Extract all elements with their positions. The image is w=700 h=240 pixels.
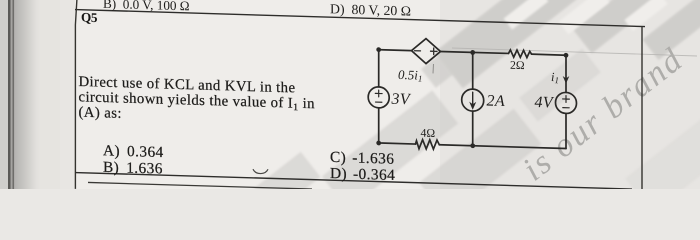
handwritten squiggle <box>253 169 268 174</box>
bottom wire right section <box>439 145 566 149</box>
watermark: diagonal gray bands (big letters of stamp) <box>0 0 1 1</box>
3V minus sign <box>376 101 382 103</box>
table: top border line <box>75 10 645 27</box>
current source 2A circle <box>462 89 484 112</box>
stray pen tick <box>432 64 435 74</box>
voltage source 4V circle <box>556 92 577 114</box>
node top-middle junction dot <box>470 50 475 55</box>
table: right border <box>641 26 643 197</box>
middle branch: wire from top node down to 2A <box>472 52 474 89</box>
table: bottom border <box>75 173 632 190</box>
second lower line <box>88 182 312 189</box>
svg-text:(A) as:: (A) as: <box>79 105 122 122</box>
node bottom-middle junction dot <box>470 143 475 148</box>
all page content sheared like the scan <box>75 0 645 206</box>
svg-text:B)1.636: B)1.636 <box>103 159 163 178</box>
svg-text:2Ω: 2Ω <box>510 58 525 72</box>
2A arrow inside <box>472 92 474 106</box>
node bottom-left junction dot <box>376 140 381 145</box>
dependent source diamond 0.5i1 <box>412 38 441 64</box>
wire 3V to top-left corner <box>378 50 380 87</box>
wire diamond to 2ohm resistor <box>441 51 509 53</box>
resistor 4 ohm zigzag <box>416 139 440 149</box>
svg-text:D)-0.364: D)-0.364 <box>330 165 395 184</box>
resistor 2 ohm zigzag <box>509 50 532 58</box>
4V minus sign <box>563 107 569 109</box>
left page spine <box>0 0 8 189</box>
svg-text:2A: 2A <box>487 93 506 111</box>
svg-text:Q5: Q5 <box>81 10 98 25</box>
white notches of the stamp letter <box>504 0 668 34</box>
node top-left junction dot <box>376 47 381 52</box>
node top-right junction dot <box>564 53 569 58</box>
minus sign inside diamond <box>415 50 421 52</box>
svg-text:4V: 4V <box>535 94 555 112</box>
wire 4V to bottom-right corner <box>565 113 567 148</box>
bottom wire left section <box>379 143 416 144</box>
faint ruled line through circuit row <box>452 48 697 56</box>
right branch: wire down to 4V source <box>565 55 567 92</box>
plus sign inside diamond <box>431 48 438 55</box>
svg-text:4Ω: 4Ω <box>421 126 436 140</box>
left branch: wire bottom corner up to 3V <box>378 108 380 143</box>
wire resistor to top-right corner <box>532 54 567 55</box>
voltage source 3V circle <box>368 87 389 109</box>
wire 2A to bottom node <box>472 111 474 146</box>
table: left border <box>75 0 77 189</box>
4V plus sign <box>563 96 570 103</box>
3V plus sign <box>375 90 382 97</box>
i1 current arrowhead <box>563 77 568 83</box>
wire top-left to diamond <box>379 49 412 52</box>
page background <box>0 0 700 189</box>
svg-text:3V: 3V <box>391 91 412 109</box>
